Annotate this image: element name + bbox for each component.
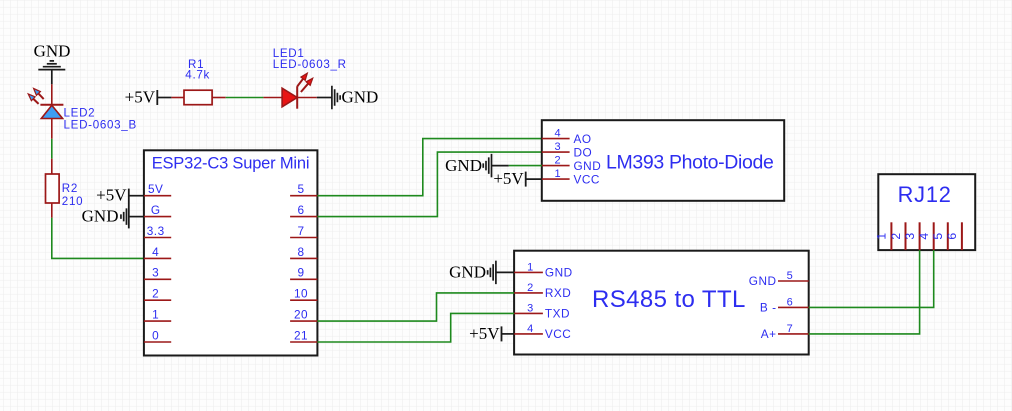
pin 20 (U1 right) <box>290 308 317 322</box>
pin 6 B - (U3 right) <box>760 296 809 314</box>
power +5V (at U3 pin4) <box>469 324 501 343</box>
svg-text:5: 5 <box>931 233 945 240</box>
svg-text:B -: B - <box>760 301 777 315</box>
wire <box>226 97 264 99</box>
power +5V (at U2 pin1) <box>493 169 525 188</box>
svg-text:+5V: +5V <box>469 324 500 343</box>
pin 4 (U1 left) <box>144 245 171 259</box>
svg-text:1: 1 <box>152 308 159 322</box>
svg-text:1: 1 <box>554 168 560 180</box>
svg-text:3: 3 <box>554 141 560 153</box>
pin 9 (U1 right) <box>290 266 317 280</box>
wire <box>129 195 144 197</box>
svg-text:3: 3 <box>527 302 533 314</box>
pin 7 (U1 right) <box>290 224 317 238</box>
svg-text:GND: GND <box>749 274 777 288</box>
pin 2 (J1) <box>889 222 906 250</box>
svg-text:RS485 to TTL: RS485 to TTL <box>592 286 746 313</box>
pin 3 TXD (U3 left) <box>514 302 570 320</box>
wire <box>526 178 542 180</box>
svg-text:GND: GND <box>342 88 379 107</box>
wire <box>509 165 542 167</box>
wire <box>809 250 934 307</box>
svg-text:GND: GND <box>574 159 602 173</box>
svg-text:ESP32-C3 Super Mini: ESP32-C3 Super Mini <box>152 155 310 173</box>
svg-text:AO: AO <box>574 132 592 146</box>
pin 4 (J1) <box>917 222 934 250</box>
ground flag GND (at U1 G) <box>82 207 127 226</box>
pin 2 GND (U2) <box>542 155 601 173</box>
svg-text:10: 10 <box>294 287 308 301</box>
svg-text:G: G <box>151 203 161 217</box>
wire <box>502 333 515 335</box>
pin 1 VCC (U2) <box>542 168 600 186</box>
label LM393 Photo-Diode <box>606 151 774 173</box>
svg-text:7: 7 <box>787 323 793 335</box>
label LED-0603_R <box>273 58 347 71</box>
LED LED1 (LED-0603_R) <box>263 73 316 109</box>
svg-text:2: 2 <box>889 233 903 240</box>
pin 3 (U1 left) <box>144 266 171 280</box>
label RS485 to TTL <box>592 286 746 313</box>
power +5V (at R1) <box>125 88 158 107</box>
svg-text:2: 2 <box>152 287 159 301</box>
ground flag GND (at U3 pin1) <box>449 261 496 285</box>
connector J1 RJ12 body <box>878 174 975 250</box>
svg-text:+5V: +5V <box>125 88 156 107</box>
svg-text:4: 4 <box>917 233 931 240</box>
pin 3 DO (U2) <box>542 141 592 159</box>
wire <box>129 216 144 218</box>
svg-text:GND: GND <box>445 156 482 175</box>
svg-text:VCC: VCC <box>574 172 600 186</box>
IC U3 RS485 to TTL body <box>514 251 809 355</box>
pin 5 GND (U3 right) <box>749 270 809 288</box>
wire <box>317 139 541 196</box>
pin 6 (U1 right) <box>290 203 317 217</box>
resistor R2 <box>46 159 60 218</box>
svg-text:1: 1 <box>875 233 889 240</box>
svg-text:4: 4 <box>152 245 159 259</box>
svg-text:5V: 5V <box>148 182 163 196</box>
svg-text:20: 20 <box>294 308 308 322</box>
pin 1 (J1) <box>875 222 892 250</box>
value 4.7k <box>185 69 210 82</box>
svg-text:4: 4 <box>554 128 560 140</box>
label R2 <box>62 182 78 195</box>
pin 10 (U1 right) <box>290 287 317 301</box>
svg-text:+5V: +5V <box>493 169 524 188</box>
svg-text:+5V: +5V <box>96 186 127 205</box>
pin 7 A+ (U3 right) <box>761 323 809 341</box>
svg-text:1: 1 <box>527 261 533 273</box>
svg-text:GND: GND <box>34 42 71 61</box>
svg-text:4: 4 <box>527 323 533 335</box>
svg-text:VCC: VCC <box>545 327 571 341</box>
svg-text:GND: GND <box>449 262 486 281</box>
resistor R1 <box>171 90 225 105</box>
svg-text:2: 2 <box>527 282 533 294</box>
svg-text:TXD: TXD <box>545 307 570 321</box>
svg-text:5: 5 <box>297 182 304 196</box>
svg-text:8: 8 <box>297 245 304 259</box>
svg-text:R2: R2 <box>62 182 78 195</box>
wire <box>496 271 514 273</box>
pin 4 VCC (U3 left) <box>514 323 571 341</box>
pin 0 (U1 left) <box>144 328 171 342</box>
pin 2 RXD (U3 left) <box>514 282 571 300</box>
wire <box>317 152 541 217</box>
svg-text:6: 6 <box>945 233 959 240</box>
svg-text:21: 21 <box>294 328 308 342</box>
pin 2 (U1 left) <box>144 287 171 301</box>
svg-text:GND: GND <box>82 207 119 226</box>
svg-text:GND: GND <box>545 266 573 280</box>
pin 1 (U1 left) <box>144 308 171 322</box>
ground flag GND (top-left) <box>34 42 71 70</box>
label ESP32-C3 Super Mini <box>152 155 310 173</box>
svg-text:5: 5 <box>787 270 793 282</box>
pin G (U1 left) <box>144 203 171 217</box>
pin 21 (U1 right) <box>290 328 317 342</box>
svg-text:LED-0603_B: LED-0603_B <box>64 119 137 132</box>
svg-text:DO: DO <box>574 145 593 159</box>
svg-text:LM393 Photo-Diode: LM393 Photo-Diode <box>606 151 774 173</box>
svg-text:6: 6 <box>787 296 793 308</box>
svg-text:3: 3 <box>903 233 917 240</box>
svg-text:4.7k: 4.7k <box>185 69 210 82</box>
wire <box>51 139 53 159</box>
wire <box>157 97 171 99</box>
pin 3.3 (U1 left) <box>144 224 171 238</box>
label LED1 <box>273 47 305 60</box>
pin 5V (U1 left) <box>144 182 171 196</box>
ground flag GND (at LED1) <box>332 86 378 110</box>
pin 6 (J1) <box>945 222 962 250</box>
power +5V (at U1) <box>96 186 129 229</box>
svg-text:6: 6 <box>297 203 304 217</box>
label LED2 <box>64 107 96 120</box>
label RJ12 <box>898 182 952 207</box>
svg-text:0: 0 <box>152 328 159 342</box>
wire <box>317 293 514 321</box>
label LED-0603_B <box>64 119 137 132</box>
wire <box>809 250 920 334</box>
wire <box>52 218 144 259</box>
pin 8 (U1 right) <box>290 245 317 259</box>
svg-text:RXD: RXD <box>545 286 571 300</box>
svg-text:LED-0603_R: LED-0603_R <box>273 58 347 71</box>
pin 5 (J1) <box>931 222 948 250</box>
wire <box>492 165 509 167</box>
pin 3 (J1) <box>903 222 920 250</box>
svg-text:RJ12: RJ12 <box>898 182 952 207</box>
label R1 <box>188 58 204 71</box>
pin 1 GND (U3 left) <box>514 261 573 279</box>
wire <box>51 70 53 84</box>
svg-text:A+: A+ <box>761 327 777 341</box>
LED LED2 (LED-0603_B) <box>28 84 63 139</box>
svg-text:210: 210 <box>62 195 83 208</box>
pin 4 AO (U2) <box>542 128 592 146</box>
ground flag GND (at U2 pin2) <box>445 154 491 178</box>
wire <box>317 313 514 342</box>
wire <box>317 97 332 99</box>
IC U1 ESP32-C3 Super Mini body <box>144 150 318 355</box>
svg-text:7: 7 <box>297 224 304 238</box>
svg-text:2: 2 <box>554 155 560 167</box>
IC U2 LM393 Photo-Diode body <box>542 120 784 201</box>
svg-text:3: 3 <box>152 266 159 280</box>
value 210 <box>62 195 83 208</box>
pin 5 (U1 right) <box>290 182 317 196</box>
svg-text:3.3: 3.3 <box>147 224 165 238</box>
svg-text:9: 9 <box>297 266 304 280</box>
